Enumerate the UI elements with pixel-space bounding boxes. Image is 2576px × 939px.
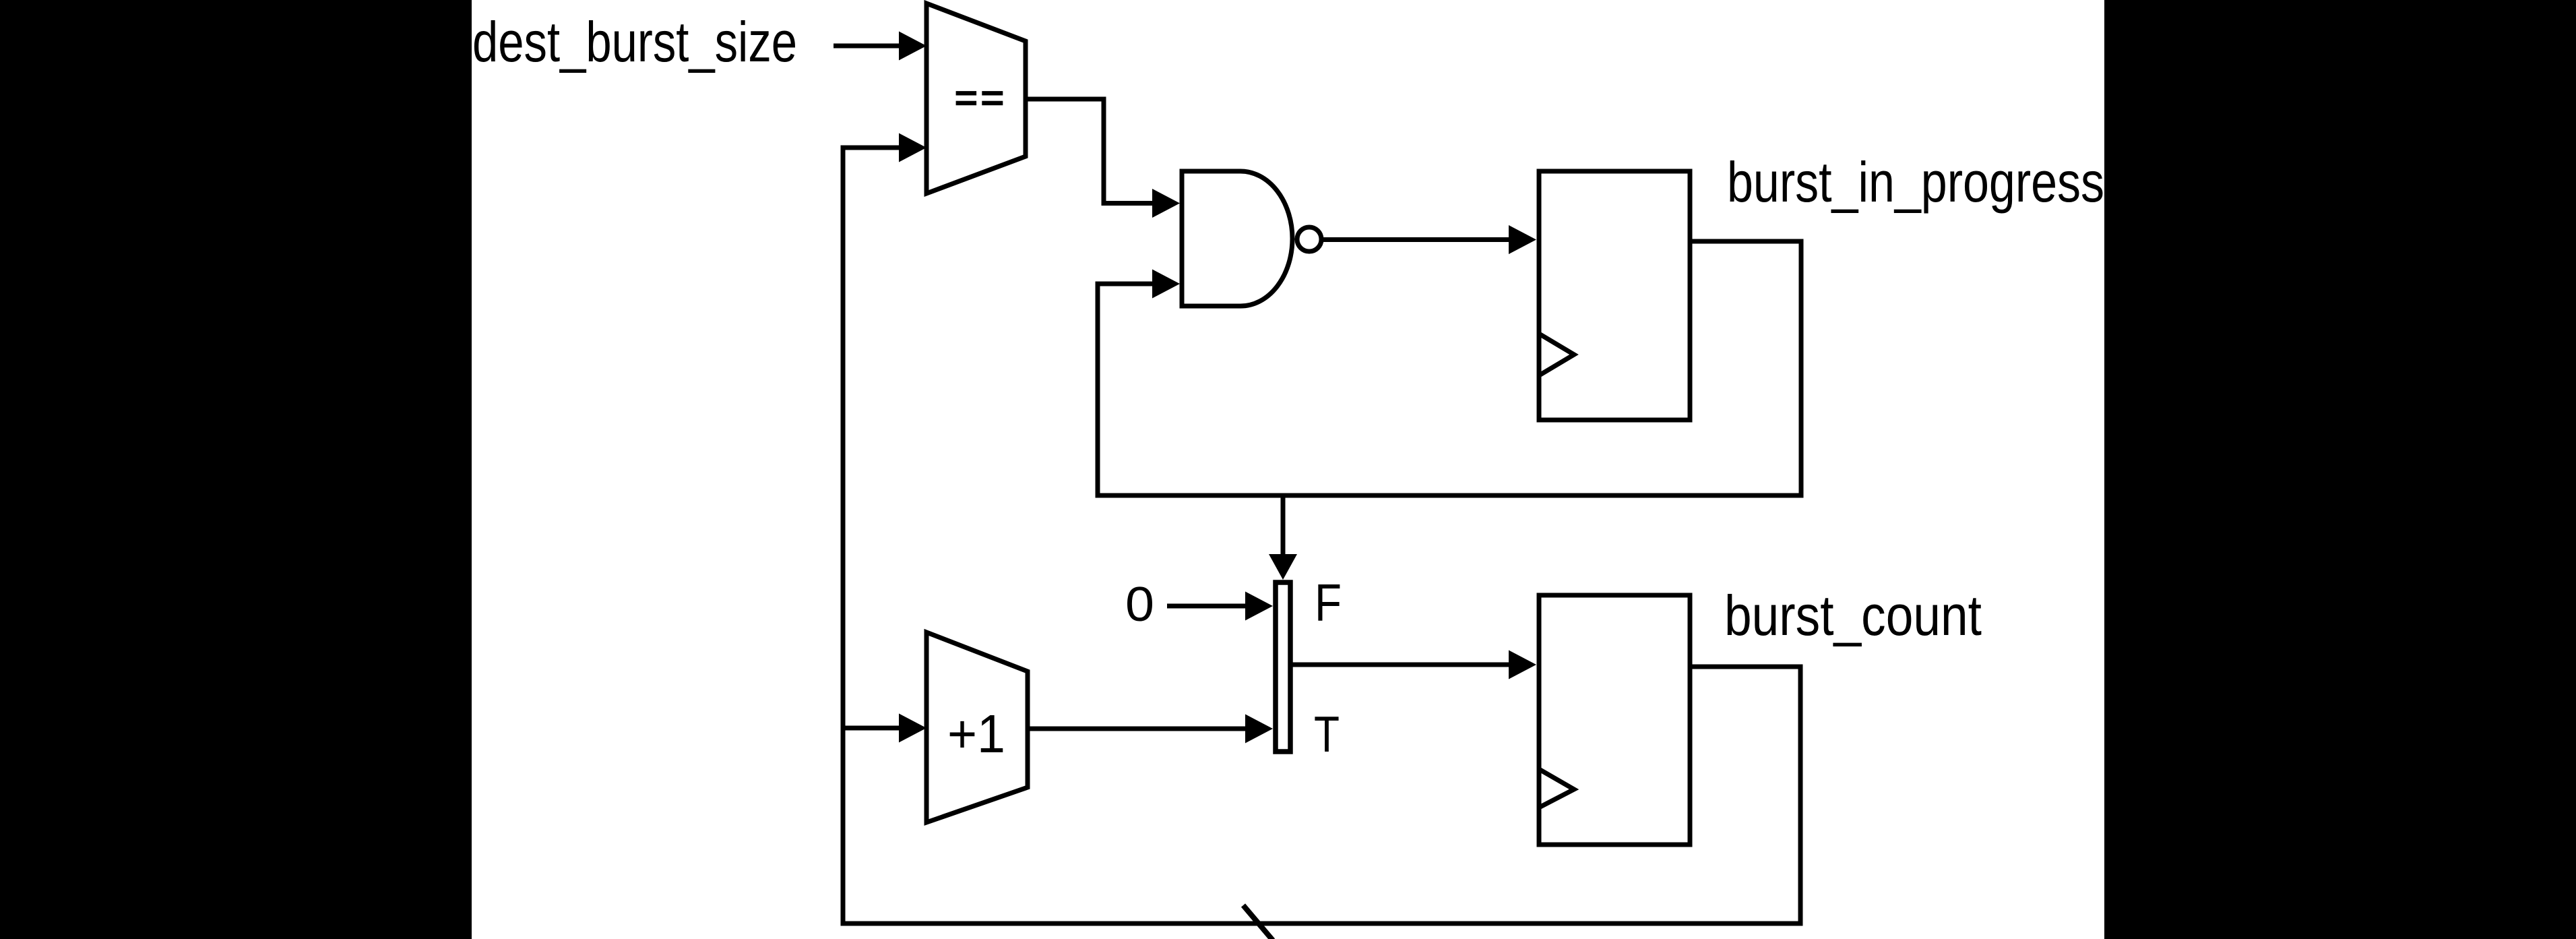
wire comparator output to NAND upper input <box>1026 99 1155 204</box>
arrowhead into NAND upper input <box>1152 189 1180 218</box>
arrowhead into comparator upper input <box>899 32 926 61</box>
arrowhead into burst_in_progress FF D input <box>1509 225 1536 254</box>
arrowhead into NAND lower input <box>1152 270 1180 299</box>
burst_count FF clock chevron <box>1539 769 1574 808</box>
right black letterbox bar <box>2104 0 2576 939</box>
burst_count flip-flop box <box>1539 595 1690 845</box>
arrowhead into mux T input <box>1245 715 1273 744</box>
wire burst_count FF feedback loop bottom <box>843 148 1800 923</box>
svg-text:F: F <box>1315 573 1342 632</box>
arrowhead into mux select (down) <box>1269 554 1297 580</box>
burst_in_progress FF clock chevron <box>1539 334 1574 375</box>
svg-text:burst_count: burst_count <box>1724 584 1982 647</box>
bus width slash <box>1243 905 1273 939</box>
NAND output bubble <box>1297 227 1321 251</box>
burst_in_progress flip-flop box <box>1539 171 1690 420</box>
wire burst_in_progress FF feedback loop to NAND lower input <box>1098 241 1801 495</box>
arrowhead into +1 input <box>899 714 926 743</box>
NAND gate U1 <box>1182 171 1292 306</box>
arrowhead into burst_count FF D input <box>1509 650 1536 679</box>
wire mux select drop <box>1281 495 1286 555</box>
wire +1 output to mux T input <box>1026 727 1248 731</box>
arrowhead into mux F input <box>1245 592 1273 621</box>
wire dest_burst_size to comparator <box>834 44 901 49</box>
wire branch to +1 input <box>843 726 901 731</box>
svg-text:+1: +1 <box>947 704 1005 764</box>
arrowhead into comparator lower input <box>899 133 926 162</box>
wire 0 to mux F input <box>1167 604 1248 609</box>
left black letterbox bar <box>0 0 472 939</box>
+1 incrementer trapezoid <box>926 632 1028 822</box>
wire NAND output to burst_in_progress FF <box>1321 237 1511 242</box>
comparator == trapezoid <box>926 3 1026 193</box>
wire mux output to burst_count FF <box>1289 663 1511 667</box>
svg-text:burst_in_progress: burst_in_progress <box>1727 150 2104 214</box>
svg-text:dest_burst_size: dest_burst_size <box>472 10 797 73</box>
svg-text:0: 0 <box>1125 578 1154 632</box>
mux (F/T) bar <box>1276 582 1290 752</box>
svg-text:T: T <box>1314 706 1340 762</box>
